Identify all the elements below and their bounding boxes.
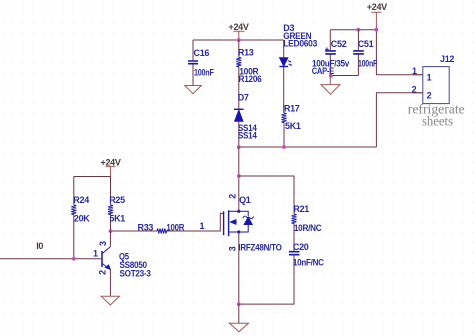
ground (Q5 emitter) [101,296,119,305]
capacitor C52 [312,30,350,76]
svg-text:J12: J12 [440,54,454,64]
wire source down [238,232,240,304]
svg-text:C20: C20 [293,242,309,252]
wire top rail [193,39,284,41]
transistor Q5 [102,247,110,270]
wire I0 line [0,258,102,260]
wire gate line [111,213,224,231]
ground (C52) [321,85,340,95]
node R25/gate [109,229,113,233]
svg-text:20K: 20K [74,213,90,223]
node Q1 drain pin [237,210,240,213]
svg-text:10R/NC: 10R/NC [294,223,322,233]
junction node at R13 top [237,38,241,42]
svg-text:5K1: 5K1 [285,121,301,131]
node C51 top [357,28,361,32]
svg-text:Q1: Q1 [239,195,251,205]
wire gnd stem [329,76,331,85]
wire J12 pin1 feed [376,30,422,75]
svg-text:1: 1 [427,72,432,82]
svg-text:C52: C52 [331,39,347,49]
resistor R13 [236,40,261,109]
svg-text:SOT23-3: SOT23-3 [120,268,151,278]
resistor R24 [71,177,90,259]
wire drain vertical [238,147,240,211]
node bus/R13 [237,145,241,149]
svg-text:SS14: SS14 [238,130,257,140]
wire Q5 emitter down [109,270,111,297]
wire J12 pin2 drop [376,93,422,147]
connector J12 [412,54,455,103]
node I0/R24 [72,257,76,261]
svg-text:3: 3 [98,241,108,246]
svg-text:100nF: 100nF [194,68,214,78]
svg-text:IRFZ48N/TO: IRFZ48N/TO [238,242,281,252]
node Q1 source pin [237,230,240,233]
resistor R25 [108,177,125,232]
diode D7 [234,93,257,148]
resistor R17 [282,103,301,147]
pin stub J12-1 [413,74,423,76]
power +24V symbol P1 (top middle) [234,31,245,40]
node +24/J12 [375,28,379,32]
svg-text:sheets: sheets [422,113,453,128]
svg-text:R13: R13 [238,48,254,58]
node bus/R17 [282,145,286,149]
svg-text:2: 2 [412,85,417,95]
power +24V symbol P3 (top right) [371,12,381,29]
node drain/snubber tee [237,174,241,178]
svg-text:+24V: +24V [101,158,121,168]
LED D3 [279,23,317,113]
ground (Q1 source) [229,323,248,332]
wire left rail [74,176,111,178]
svg-text:2: 2 [227,194,237,199]
svg-text:R21: R21 [293,204,309,214]
svg-text:LED0603: LED0603 [283,39,317,49]
svg-text:+24V: +24V [367,2,387,12]
wire snubber link [239,176,294,214]
svg-text:R17: R17 [284,103,300,113]
svg-text:2: 2 [427,91,432,101]
svg-text:R24: R24 [73,195,89,205]
wire top right rail [330,29,376,31]
svg-text:1: 1 [412,66,417,76]
resistor R33 [138,222,185,233]
svg-text:R33: R33 [138,222,154,232]
svg-text:I0: I0 [36,241,43,251]
capacitor C16 [188,40,214,86]
svg-text:R25: R25 [109,195,125,205]
svg-text:2: 2 [98,270,108,275]
power +24V symbol P2 (left) [106,167,116,177]
svg-text:C51: C51 [358,39,374,49]
node gnd tee [329,74,333,78]
wire Q5 collector up [109,231,111,247]
svg-text:D7: D7 [238,93,249,103]
svg-text:1: 1 [200,221,205,231]
ground (C16) [185,86,202,94]
transistor Q1 MOSFET [224,210,254,236]
pin stub J12-2 [413,92,423,94]
svg-text:100R: 100R [166,222,184,232]
svg-text:+24V: +24V [229,22,249,32]
wire gnd stem Q1 [238,304,240,323]
node source/snubber [237,302,241,306]
capacitor C20 [239,242,325,304]
wire C52/C51 bottoms [330,75,358,77]
svg-text:10nF/NC: 10nF/NC [293,258,325,268]
svg-text:100nF: 100nF [358,58,378,68]
svg-text:5K1: 5K1 [109,213,125,223]
svg-text:1: 1 [93,249,98,259]
svg-text:C16: C16 [194,48,210,58]
capacitor C51 [353,30,377,76]
wire drain bus y=147 [239,146,377,148]
svg-text:R1206: R1206 [239,74,262,84]
resistor R21 [292,204,323,251]
svg-text:3: 3 [227,246,237,251]
